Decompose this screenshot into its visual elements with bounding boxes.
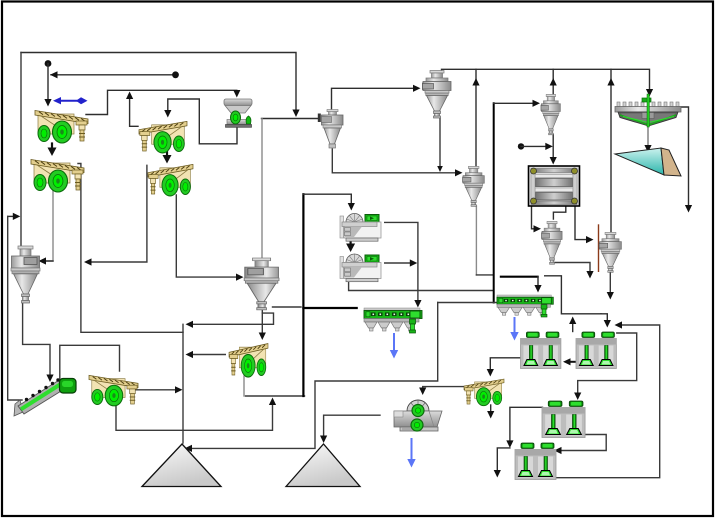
wire filter press centre discharge to cyclone5 top (553, 207, 565, 220)
ball mill M1 (394, 400, 442, 431)
wire top header from trunk to pump feed (21, 53, 296, 113)
wire cyclone4 underflow (475, 206, 477, 275)
cyclone C6 (599, 232, 621, 272)
wire bank B to bank A arrow (568, 361, 578, 363)
wire bold stub right of trunk (303, 307, 356, 309)
wire bank B tails to bank C (578, 333, 637, 394)
scrubber SC2 (340, 254, 381, 282)
wire trunk A with junction arrow (8, 215, 16, 217)
wire branch down to cyclone7 top (261, 119, 263, 259)
wire filter press right discharge to cyclone6 (575, 207, 589, 240)
wire undersize junction line (246, 395, 305, 397)
wire cyclone3 underflow to cyclone4 (332, 149, 458, 173)
wire cyclone1 overflow header to thickener (442, 69, 650, 91)
wire big cyclone underflow to conveyor (23, 304, 50, 378)
wire cyclone4 overflow riser (475, 69, 477, 166)
node dot on filter feed line (518, 143, 524, 149)
node dot end of recycle header (172, 71, 179, 78)
cyclone C4 (463, 166, 485, 206)
wire screen8 oversize to mill (423, 387, 464, 388)
wire cyclone2 underflow into filter press (552, 134, 554, 158)
wire trunk to stockpile1 (182, 324, 184, 443)
wire scrubber2 bottom across (349, 282, 494, 291)
wire bold feed toward flotation (501, 276, 538, 278)
wire blue double arrow (58, 100, 83, 102)
wire cyclone3 overflow to cyclone1 (332, 88, 417, 110)
wire tails drop (497, 448, 510, 471)
wire cyclone2 overflow riser (552, 69, 554, 94)
wire screen3 to screen4 arrow (166, 144, 168, 156)
wire scrubber1 to scrubber2 arrow (350, 242, 352, 246)
pump cyclone C3 (318, 110, 343, 149)
cyclone C2 (541, 94, 560, 134)
wire screen5 undersize collection (116, 403, 273, 430)
thickener T1 (615, 94, 681, 127)
wire screen1 feed drop (47, 64, 49, 101)
wire feeder discharge to screen3 (168, 99, 237, 144)
wire bank A to screen8 (490, 358, 521, 370)
wire recycle header with end dot (51, 74, 176, 76)
wire bank C left output (510, 407, 543, 441)
wire thickener underflow to launder (647, 127, 649, 146)
flotation bank A (521, 332, 561, 369)
wire blue product arrow table1 (393, 334, 395, 351)
wire screen8 undersize arrow (490, 405, 492, 412)
wire cyclone7 spigot branch to trunk (190, 313, 274, 324)
wire branch arrow onto table2 (537, 277, 539, 286)
flotation bank D (515, 443, 556, 480)
wire mill discharge to stockpile2 (324, 415, 380, 436)
vibrating screen S3 (139, 121, 187, 153)
wire table2 left output to stockpile1 (190, 303, 438, 449)
wire bank C to bank D (559, 435, 606, 451)
wire screen2 oversize down and across to trunk (78, 164, 183, 333)
node junction dot screen1 feed (45, 60, 52, 67)
wire level indicator line (598, 225, 600, 271)
stockpile 2 (286, 444, 360, 487)
vibrating screen S1 (35, 111, 88, 144)
wire thickener overflow (680, 107, 689, 206)
wire header drop to cyclone6 (610, 69, 612, 231)
wire cyclone5 spigot discharge (553, 263, 590, 273)
wire bold trunk to scrubber1 (302, 194, 304, 396)
vibrating screen S6 (229, 344, 268, 377)
wire cyclone6 underflow arrow (609, 265, 611, 293)
flotation bank C (542, 401, 585, 438)
wire screen4 right undersize to cyclone7 (176, 195, 239, 277)
cyclone C7 (244, 258, 279, 310)
trough table TB2 (497, 295, 553, 317)
launder L1 (615, 148, 681, 176)
wire trunk B into big cyclone top (20, 53, 22, 248)
wire screen3 left riser (130, 99, 138, 126)
wire scrubber1 output to table1 (385, 222, 418, 301)
wire conveyor head to screen5 (60, 345, 120, 379)
cyclone C5 (542, 221, 563, 264)
wire trunk A down to conveyor tail (8, 216, 22, 400)
wire screen4 left undersize to downcomer (88, 165, 147, 262)
wire screen2 undersize to big cyclone inlet (45, 191, 53, 261)
wire scrubber2 output joining (385, 262, 413, 264)
wire table2 feed line (438, 302, 497, 304)
wire screen1 to screen2 arrow (51, 144, 53, 150)
trough table TB1 (364, 308, 422, 333)
wire screen6 left output to trunk (190, 354, 225, 356)
filter press FP1 (529, 166, 580, 206)
vibrating screen S8 (464, 379, 504, 406)
wire arrow into feed line (292, 110, 299, 118)
conveyor CV1 (14, 378, 76, 416)
wire bank A froth riser arrow (572, 324, 574, 332)
wire screen6 undersize (243, 376, 245, 396)
wire screen5 oversize to trunk (136, 389, 177, 391)
feeder F1 (224, 99, 252, 127)
wire blue product arrow table2 (514, 318, 516, 333)
wire pump feed line to cyclone3 (262, 118, 320, 120)
vibrating screen S4 (148, 164, 193, 196)
scrubber SC1 (340, 214, 381, 242)
wire screen1 oversize riser to feeder header (86, 90, 237, 114)
flotation bank B (576, 332, 616, 369)
wire cyclone7 spigot to screen6 (261, 310, 263, 334)
vibrating screen S2 (31, 160, 84, 193)
stockpile 1 (142, 444, 221, 487)
vibrating screen S5 (89, 375, 138, 406)
wire bank B top feed (601, 314, 607, 321)
wire blue product arrow mill (411, 439, 413, 460)
wire bank D recycle to bank B (554, 325, 660, 478)
wire dot to cyclone2 underflow (521, 145, 548, 147)
wire cyclone1 underflow (439, 118, 441, 167)
wire bold column to cyclone2 (493, 103, 495, 302)
cyclone C1 (423, 71, 452, 119)
wire spigot stub (273, 306, 302, 308)
cyclone C8 (11, 246, 40, 303)
wire filter press left discharge to cyclone5 (532, 206, 537, 229)
